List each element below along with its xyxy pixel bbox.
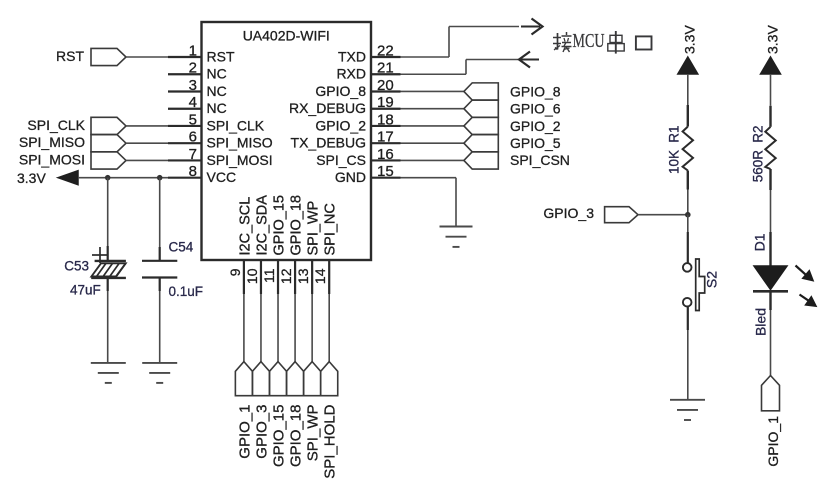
- svg-text:GPIO_18: GPIO_18: [289, 195, 305, 255]
- svg-text:10: 10: [244, 268, 260, 284]
- svg-text:GPIO_18: GPIO_18: [288, 405, 305, 468]
- svg-text:GPIO_15: GPIO_15: [272, 195, 288, 255]
- svg-text:C53: C53: [64, 259, 89, 274]
- svg-text:NC: NC: [207, 66, 227, 82]
- svg-text:22: 22: [377, 43, 394, 60]
- svg-text:15: 15: [377, 163, 394, 180]
- svg-text:SPI_MOSI: SPI_MOSI: [207, 152, 273, 168]
- svg-text:SPI_WP: SPI_WP: [305, 405, 322, 462]
- svg-text:16: 16: [377, 146, 394, 163]
- svg-text:GND: GND: [335, 169, 366, 185]
- svg-text:GPIO_2: GPIO_2: [510, 118, 561, 134]
- svg-text:17: 17: [377, 129, 394, 146]
- svg-text:3.3V: 3.3V: [764, 25, 780, 54]
- svg-text:TXD: TXD: [338, 49, 366, 65]
- svg-text:3.3V: 3.3V: [682, 25, 698, 54]
- svg-text:SPI_CLK: SPI_CLK: [27, 117, 85, 133]
- svg-text:3: 3: [189, 77, 197, 94]
- svg-text:5: 5: [189, 111, 197, 128]
- svg-text:GPIO_8: GPIO_8: [510, 83, 561, 99]
- svg-text:I2C_SCL: I2C_SCL: [237, 197, 253, 256]
- svg-text:1: 1: [189, 43, 197, 60]
- svg-text:GPIO_3: GPIO_3: [543, 205, 594, 221]
- svg-text:NC: NC: [207, 100, 227, 116]
- svg-text:SPI_CSN: SPI_CSN: [510, 152, 570, 168]
- svg-text:S2: S2: [704, 271, 720, 288]
- svg-text:RX_DEBUG: RX_DEBUG: [289, 100, 366, 116]
- svg-text:R2: R2: [750, 126, 765, 143]
- svg-text:21: 21: [377, 60, 394, 77]
- svg-text:GPIO_15: GPIO_15: [271, 405, 288, 468]
- svg-text:SPI_NC: SPI_NC: [323, 203, 339, 255]
- svg-text:8: 8: [189, 163, 197, 180]
- svg-text:R1: R1: [666, 126, 681, 143]
- svg-text:19: 19: [377, 94, 394, 111]
- svg-text:GPIO_5: GPIO_5: [510, 135, 561, 151]
- svg-text:47uF: 47uF: [70, 283, 101, 298]
- svg-text:RXD: RXD: [336, 66, 366, 82]
- svg-text:11: 11: [261, 268, 277, 283]
- svg-text:13: 13: [295, 268, 311, 284]
- svg-text:10K: 10K: [666, 150, 681, 174]
- svg-text:MCU: MCU: [573, 30, 605, 52]
- svg-text:20: 20: [377, 77, 394, 94]
- svg-text:SPI_MISO: SPI_MISO: [207, 135, 273, 151]
- svg-text:SPI_MOSI: SPI_MOSI: [19, 151, 85, 167]
- svg-text:SPI_WP: SPI_WP: [306, 201, 322, 256]
- svg-text:SPI_CLK: SPI_CLK: [207, 117, 265, 133]
- svg-text:SPI_CS: SPI_CS: [316, 152, 366, 168]
- svg-text:2: 2: [189, 60, 197, 77]
- svg-text:VCC: VCC: [207, 169, 237, 185]
- svg-text:GPIO_1: GPIO_1: [765, 416, 781, 467]
- svg-text:560R: 560R: [750, 150, 765, 183]
- svg-text:TX_DEBUG: TX_DEBUG: [291, 135, 366, 151]
- svg-text:3.3V: 3.3V: [17, 170, 46, 186]
- svg-text:GPIO_2: GPIO_2: [315, 117, 366, 133]
- svg-text:0.1uF: 0.1uF: [169, 284, 204, 299]
- svg-text:12: 12: [278, 268, 294, 284]
- svg-text:Bled: Bled: [753, 308, 769, 336]
- svg-text:7: 7: [189, 146, 197, 163]
- svg-text:D1: D1: [752, 233, 768, 251]
- svg-text:SPI_HOLD: SPI_HOLD: [322, 404, 339, 478]
- svg-text:9: 9: [227, 268, 243, 276]
- svg-text:NC: NC: [207, 83, 227, 99]
- svg-text:UA402D-WIFI: UA402D-WIFI: [243, 28, 330, 44]
- svg-text:6: 6: [189, 129, 197, 146]
- svg-text:RST: RST: [207, 49, 235, 65]
- svg-text:14: 14: [312, 268, 328, 284]
- svg-text:I2C_SDA: I2C_SDA: [254, 195, 270, 256]
- svg-text:GPIO_1: GPIO_1: [236, 405, 253, 459]
- svg-text:GPIO_6: GPIO_6: [510, 101, 561, 117]
- svg-text:4: 4: [189, 94, 197, 111]
- svg-text:RST: RST: [56, 48, 84, 64]
- svg-text:GPIO_8: GPIO_8: [315, 83, 366, 99]
- svg-text:C54: C54: [169, 240, 194, 255]
- svg-text:18: 18: [377, 111, 394, 128]
- svg-text:GPIO_3: GPIO_3: [253, 405, 270, 459]
- svg-text:SPI_MISO: SPI_MISO: [19, 134, 85, 150]
